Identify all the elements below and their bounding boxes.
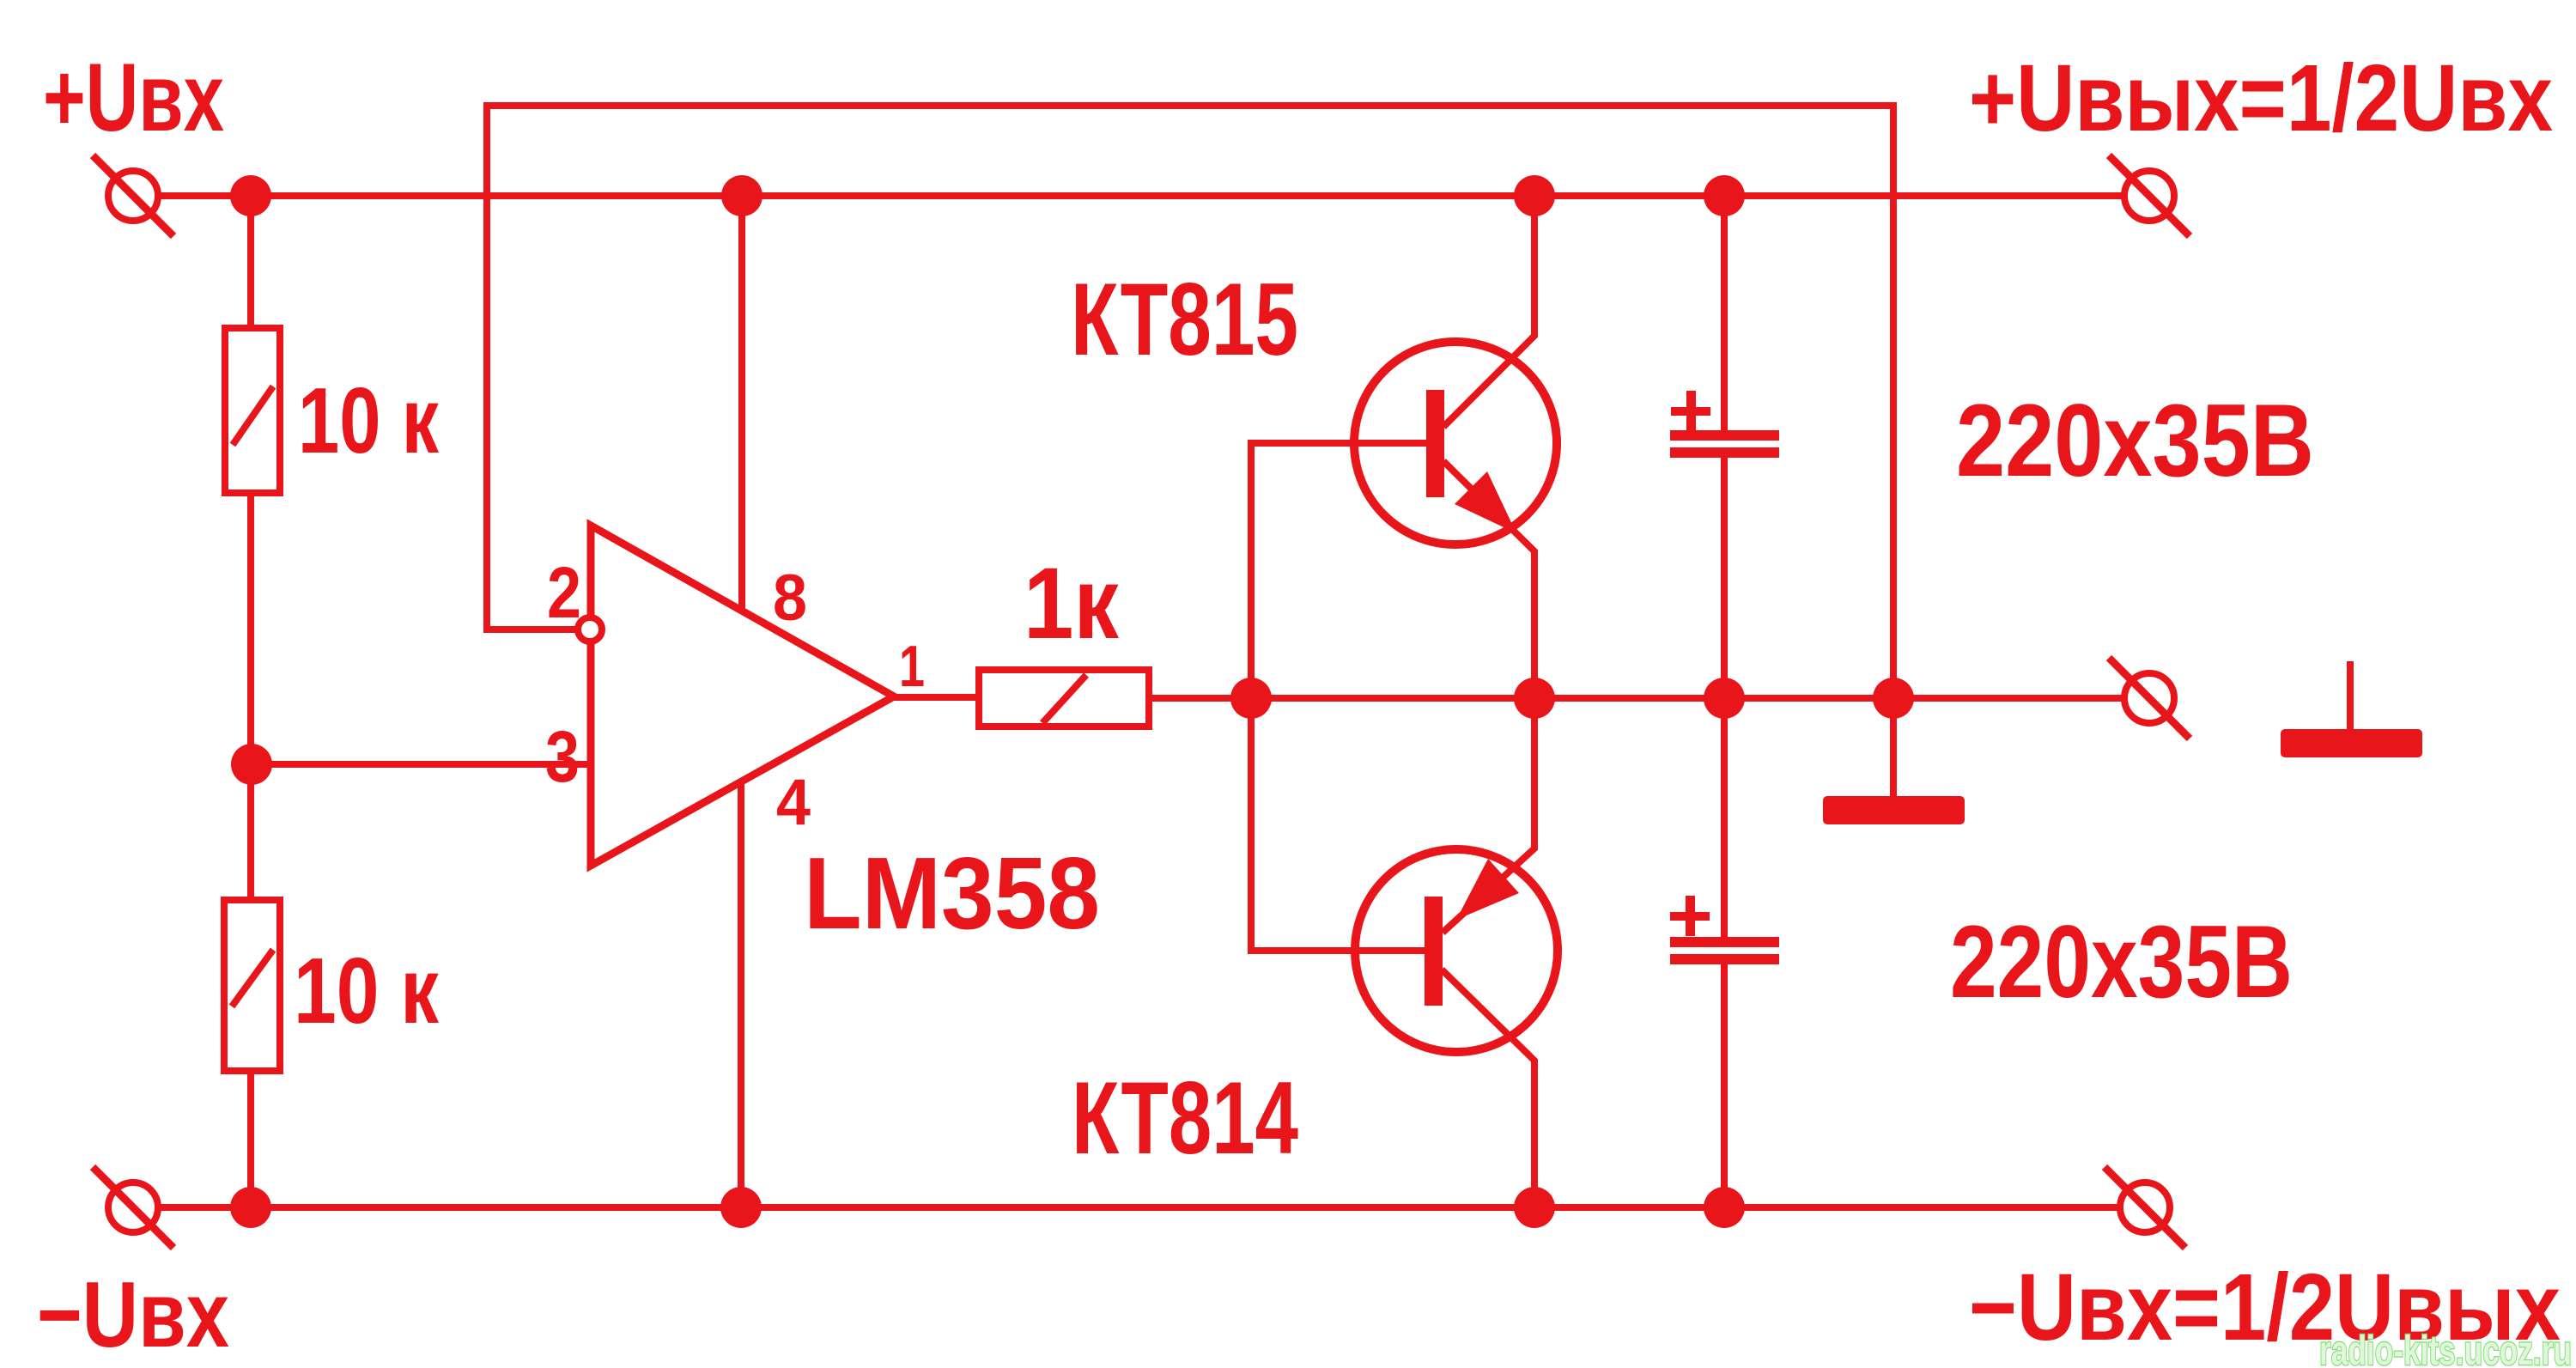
wire Q2 emitter: [1443, 698, 1534, 933]
junction (C1-C2 / mid rail): [1704, 678, 1745, 719]
junction (R1 / top rail): [230, 175, 271, 216]
junction (pin4 riser / bottom rail): [720, 1187, 762, 1228]
junction (R3 / bases node): [1230, 678, 1272, 719]
wire mid output rail: [1149, 695, 2124, 702]
svg-text:+Uвых=1/2Uвх: +Uвых=1/2Uвх: [1969, 46, 2553, 151]
wire feedback loop (pin2 to output node): [487, 106, 1893, 698]
svg-text:1к: 1к: [1024, 547, 1120, 660]
svg-text:КТ815: КТ815: [1071, 262, 1298, 377]
svg-text:−Uвх: −Uвх: [37, 1262, 229, 1367]
capacitor C1 220x35V: [1670, 391, 1779, 458]
wire pin4 riser: [738, 783, 744, 1207]
wire R1 to node A: [247, 493, 254, 900]
wire op-amp output: [889, 694, 979, 701]
op-amp U1 triangle LM358: [591, 526, 894, 866]
terminal -Uin: [93, 1167, 173, 1248]
junction (C2 / bottom rail): [1704, 1187, 1745, 1228]
svg-text:10 к: 10 к: [294, 939, 439, 1043]
wire R2 to bottom rail: [247, 1071, 254, 1207]
junction (feedback-ground / mid rail): [1873, 678, 1914, 719]
svg-text:10 к: 10 к: [298, 368, 439, 473]
wire C2 leads: [1721, 698, 1728, 1207]
transistor Q2 KT814: [1355, 849, 1558, 1052]
terminal output common: [2109, 658, 2190, 739]
wire top rail +Uin: [158, 192, 2124, 199]
junction (C1 / top rail): [1704, 175, 1745, 216]
junction (node A pin3): [231, 744, 272, 785]
svg-text:220х35В: 220х35В: [1956, 383, 2314, 498]
svg-text:КТ814: КТ814: [1072, 1061, 1298, 1176]
terminal +Uout: [2109, 155, 2190, 236]
wire Q2 base link: [1251, 698, 1425, 951]
wire C1 leads: [1721, 196, 1728, 698]
svg-text:4: 4: [776, 766, 811, 839]
svg-text:220х35В: 220х35В: [1950, 904, 2293, 1019]
svg-text:8: 8: [773, 562, 807, 635]
ground at output node: [1823, 796, 1965, 824]
svg-text:LM358: LM358: [804, 836, 1100, 951]
svg-text:radio-kits.ucoz.ru: radio-kits.ucoz.ru: [2319, 1328, 2572, 1368]
wire pin3 input: [252, 761, 591, 768]
wire R1 top drop: [247, 196, 254, 328]
terminal +Uin: [93, 155, 173, 236]
junction (Q2 collector / bottom rail): [1514, 1187, 1555, 1228]
capacitor C2 220x35V: [1670, 896, 1779, 964]
wire Q1 collector: [1443, 196, 1534, 427]
junction (R2 / bottom rail): [230, 1187, 271, 1228]
ground symbol right: [2281, 661, 2422, 757]
svg-text:+Uвх: +Uвх: [43, 44, 224, 151]
svg-text:3: 3: [545, 716, 580, 797]
junction (Q1-Q2 emitters / mid rail): [1514, 678, 1555, 719]
terminal -Uout: [2105, 1167, 2185, 1248]
wire pin8 riser: [738, 196, 745, 614]
wire ground stub at output: [1890, 698, 1897, 798]
resistor R2 10k: [224, 900, 280, 1071]
resistor R1 10k: [225, 328, 280, 493]
wire Q1 base link: [1251, 443, 1426, 698]
svg-text:1: 1: [899, 634, 925, 699]
svg-text:2: 2: [547, 552, 581, 633]
junction (pin8 riser / top rail): [721, 175, 762, 216]
transistor Q1 KT815: [1354, 342, 1557, 544]
junction (Q1 collector / top rail): [1514, 175, 1555, 216]
op-amp inverting input bubble: [578, 617, 602, 641]
wire bottom rail -Uin: [158, 1204, 2120, 1211]
wire Q1 emitter: [1443, 461, 1534, 698]
resistor R3 1k: [979, 670, 1149, 727]
wire Q2 collector: [1442, 970, 1534, 1207]
